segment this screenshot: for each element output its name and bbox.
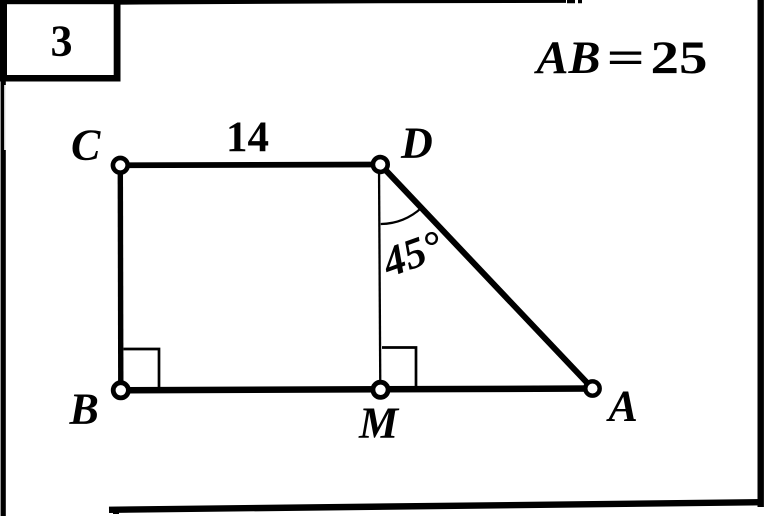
- page border: right edge: [758, 0, 764, 507]
- svg-text:=: =: [607, 33, 646, 84]
- vertex circle M: [373, 382, 388, 397]
- svg-text:25: 25: [651, 33, 708, 84]
- page border: top edge: [0, 0, 566, 6]
- right angle mark at B: [124, 349, 160, 388]
- vertex circle A: [585, 381, 599, 395]
- svg-text:C: C: [71, 121, 101, 170]
- svg-text:M: M: [358, 399, 400, 448]
- svg-text:14: 14: [226, 114, 269, 161]
- page border: left edge: [1, 0, 6, 516]
- segment DM: [379, 165, 380, 390]
- right angle mark at M: [382, 348, 416, 388]
- side BA (through M): [121, 389, 593, 391]
- page border: bottom edge: [109, 502, 762, 510]
- angle arc at D: [381, 208, 422, 224]
- side DA: [380, 165, 592, 389]
- svg-text:3: 3: [51, 17, 73, 66]
- vertex circle D: [373, 157, 388, 172]
- svg-text:A: A: [606, 382, 638, 431]
- svg-text:D: D: [400, 119, 433, 168]
- side CD: [120, 162, 380, 169]
- page border: top edge fading dashes: [567, 0, 582, 3]
- vertex circle B: [113, 383, 128, 398]
- problem number box: [0, 0, 121, 82]
- vertex circle C: [113, 158, 128, 173]
- svg-text:B: B: [69, 385, 99, 434]
- side CB: [118, 165, 124, 390]
- page border: bottom edge left dashes: [113, 511, 119, 514]
- equation AB = 25: [533, 33, 707, 84]
- svg-text:AB: AB: [533, 33, 600, 84]
